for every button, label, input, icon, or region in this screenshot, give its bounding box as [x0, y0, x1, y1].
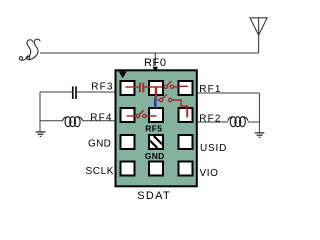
switch SW1 to RF1	[164, 85, 167, 88]
antenna ANT	[250, 18, 267, 53]
wire RF4 + inductor L1	[40, 120, 115, 122]
svg-text:RF5: RF5	[145, 123, 162, 133]
pad USID (row3 right)	[179, 135, 193, 149]
chip U1 body	[116, 70, 197, 186]
internal red net row1: RF3 pad to cap C	[126, 81, 189, 118]
pad VIO (row4 right)	[179, 162, 193, 176]
pad RF3 (row1 left)	[121, 81, 135, 95]
svg-text:VIO: VIO	[200, 168, 219, 179]
svg-text:USID: USID	[200, 143, 227, 154]
wire RF1	[198, 92, 260, 94]
svg-text:RF2: RF2	[199, 113, 221, 124]
pad SDAT (row4 mid)	[149, 162, 163, 176]
pad SCLK (row4 left)	[121, 162, 135, 176]
pad RF4 (row2 left)	[121, 108, 135, 122]
pad RF1 (row1 right)	[179, 81, 193, 95]
wire RF3 + capacitor C1	[40, 91, 115, 93]
svg-text:RF3: RF3	[91, 82, 113, 93]
capacitor C (red, internal)	[139, 83, 141, 93]
wire RF2 + inductor L2	[198, 121, 260, 123]
svg-text:GND: GND	[145, 151, 165, 161]
svg-text:RF4: RF4	[90, 112, 112, 123]
pad GND paddle (row3 mid, hatched)	[149, 135, 163, 149]
svg-text:SDAT: SDAT	[137, 190, 171, 201]
pad RF5 (row2 mid)	[149, 108, 163, 122]
feed squiggle (off-page connector)	[19, 39, 40, 60]
pin-1 marker	[119, 71, 127, 78]
switch SW2 to RF2	[157, 99, 159, 101]
ground GND2 (right)	[255, 133, 265, 138]
svg-text:RF1: RF1	[199, 84, 221, 95]
svg-text:SCLK: SCLK	[86, 166, 115, 177]
svg-text:RF0: RF0	[144, 57, 167, 69]
pad RF2 (row2 right)	[179, 108, 193, 122]
T stem	[155, 87, 158, 98]
switch SW3 RF4 to RF5	[127, 115, 137, 117]
capacitor C1 plates	[72, 86, 74, 99]
inductor L2 coils	[228, 117, 248, 127]
pad RF0 (row1 mid)	[149, 81, 163, 95]
wire: right vertical	[258, 93, 260, 133]
wire: left vertical	[39, 92, 41, 132]
wire: squiggle to antenna	[40, 52, 259, 54]
inductor L1 coils	[63, 117, 83, 127]
svg-text:GND: GND	[88, 138, 111, 149]
RF0 stub arrowhead	[153, 67, 159, 72]
ground GND1 (left)	[36, 132, 46, 137]
blue net RF5	[154, 98, 157, 108]
pad GND (row3 left)	[121, 135, 135, 149]
wire: RF0 stub	[154, 53, 156, 66]
